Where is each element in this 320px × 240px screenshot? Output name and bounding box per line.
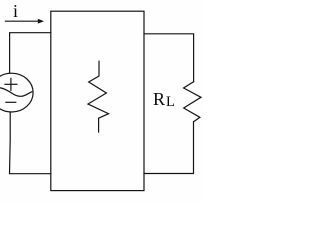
- voltage source minus sign: [6, 101, 16, 103]
- voltage source sine squiggle: [0, 88, 32, 97]
- resistor inside box: [88, 61, 109, 132]
- label RL (load resistor): [153, 89, 165, 110]
- label RL subscript L: [166, 94, 175, 111]
- voltage source plus sign: [5, 78, 17, 90]
- wire top-left from source to box: [10, 33, 51, 73]
- wire bottom-right from RL to box: [144, 122, 194, 174]
- wire top-right from box to RL: [144, 34, 194, 82]
- two-port network box: [51, 11, 144, 190]
- resistor RL: [184, 82, 201, 122]
- current arrow: [5, 19, 44, 24]
- voltage source VS circle: [0, 73, 33, 112]
- label i (current): [13, 1, 18, 22]
- wire bottom-left from source to box: [10, 112, 51, 174]
